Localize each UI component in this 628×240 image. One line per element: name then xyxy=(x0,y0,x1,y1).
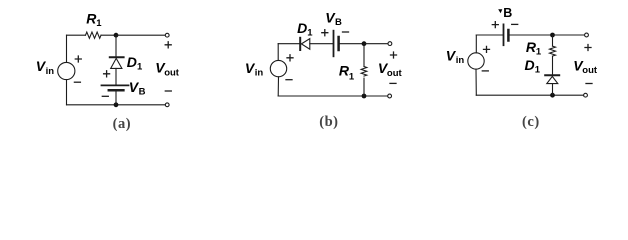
value label R1 (a) xyxy=(86,10,102,29)
wire: (a) node A down to diode xyxy=(115,35,117,56)
wire: (c) battery to node E xyxy=(510,34,553,36)
polarity +: (b) output xyxy=(391,52,397,58)
polarity +: (c) output xyxy=(585,45,591,51)
label D1 (b) xyxy=(297,20,313,39)
wire: (b) battery to node C xyxy=(340,43,364,45)
polarity -: (c) output xyxy=(586,83,592,85)
voltage source Vin (c) xyxy=(468,53,484,69)
label Vout (a) xyxy=(155,59,180,78)
wire: (a) left rail vertical xyxy=(66,35,68,105)
svg-text:1: 1 xyxy=(307,28,313,39)
polarity -: (b) battery VB xyxy=(343,31,349,33)
node E: (c) top junction dot xyxy=(550,33,555,38)
wire: (a) top rail left segment xyxy=(67,34,86,36)
label VB (b) xyxy=(325,10,342,28)
svg-text:B: B xyxy=(503,6,512,20)
polarity -: (a) output xyxy=(165,90,171,92)
svg-text:1: 1 xyxy=(349,71,355,82)
wire: (b) top rail left segment xyxy=(278,43,299,45)
voltage source Vin (b) xyxy=(270,60,286,76)
label Vout (c) xyxy=(573,57,598,76)
label Vin (b) xyxy=(245,60,264,79)
terminal: (a) output - (open circle) xyxy=(165,103,169,107)
label Vout (b) xyxy=(378,60,403,79)
battery VB (b) short plate xyxy=(337,37,340,50)
polarity +: (a) battery VB xyxy=(104,71,110,77)
polarity -: (b) source xyxy=(286,79,292,81)
wire: (b) node C down to resistor xyxy=(363,44,365,67)
wire: (b) diode to battery xyxy=(310,43,333,45)
label Vin (a) xyxy=(36,58,55,77)
label D1 (c) xyxy=(525,57,541,76)
caption (b) xyxy=(319,114,338,130)
label D1 (a) xyxy=(127,54,143,73)
caption (a) xyxy=(113,116,132,132)
caption (c) xyxy=(522,114,540,130)
label VB (c) B subscript xyxy=(503,6,512,20)
svg-text:(c): (c) xyxy=(522,114,540,130)
diode D1 (b) cathode bar xyxy=(299,38,301,50)
node B: (a) bottom junction dot xyxy=(114,102,119,107)
svg-text:D: D xyxy=(127,54,137,70)
svg-text:out: out xyxy=(164,67,180,78)
battery VB (c) long plate xyxy=(503,24,505,45)
svg-text:(b): (b) xyxy=(319,114,338,130)
wire: (c) left rail vertical xyxy=(475,35,477,95)
wire: (b) resistor to node D xyxy=(363,78,365,96)
wire: (c) diode to bottom rail xyxy=(552,84,554,96)
wire: (c) bottom rail xyxy=(476,94,583,96)
battery VB (b) long plate xyxy=(333,31,335,57)
resistor R1 (c) xyxy=(550,46,556,56)
svg-text:out: out xyxy=(387,68,403,79)
svg-text:D: D xyxy=(297,20,307,36)
diode D1 (a) cathode bar xyxy=(110,56,124,58)
polarity +: (a) source xyxy=(75,56,81,62)
node F: (c) bottom junction dot xyxy=(550,93,555,98)
polarity -: (b) output xyxy=(390,82,396,84)
node C: (b) top junction dot xyxy=(362,41,367,46)
svg-text:in: in xyxy=(46,66,55,77)
svg-text:1: 1 xyxy=(96,18,102,29)
terminal: (b) output - (open circle) xyxy=(388,94,392,98)
polarity +: (a) output xyxy=(165,42,171,48)
wire: (c) node E down to resistor xyxy=(552,35,554,46)
svg-text:B: B xyxy=(335,17,342,28)
polarity -: (a) battery VB xyxy=(102,95,108,97)
polarity -: (c) source xyxy=(482,70,488,72)
svg-text:in: in xyxy=(255,68,264,79)
battery VB (c) short plate xyxy=(507,30,510,41)
value label R1 (c) xyxy=(526,39,542,58)
label Vin (c) xyxy=(446,48,465,67)
voltage source Vin (a) xyxy=(58,62,75,79)
polarity +: (b) source xyxy=(287,55,293,61)
wire: (c) resistor to diode xyxy=(552,56,554,74)
label VB (c) clipped V wedge xyxy=(498,9,502,13)
value label R1 (b) xyxy=(339,63,355,83)
wire: (a) resistor to node A xyxy=(101,34,116,36)
wire: (b) left rail vertical xyxy=(277,44,279,96)
wire: (a) battery to bottom rail xyxy=(115,91,117,104)
diode D1 (a) triangle (pointing up) xyxy=(111,58,122,68)
svg-text:1: 1 xyxy=(535,64,541,75)
wire: (b) node C to output + terminal xyxy=(364,43,388,45)
terminal: (a) output + (open circle) xyxy=(165,33,169,37)
wire: (a) bottom rail xyxy=(67,104,166,106)
svg-text:1: 1 xyxy=(536,46,542,57)
wire: (b) bottom rail xyxy=(278,95,388,97)
diode D1 (c) cathode bar xyxy=(545,74,559,76)
svg-text:out: out xyxy=(582,65,598,76)
label VB (a) xyxy=(129,79,146,98)
polarity -: (c) battery VB xyxy=(512,23,518,25)
battery VB (a) short plate xyxy=(109,89,124,92)
wire: (c) top rail left segment xyxy=(476,34,502,36)
svg-text:D: D xyxy=(525,57,535,73)
polarity +: (c) battery VB xyxy=(492,22,498,28)
svg-text:in: in xyxy=(456,55,465,66)
polarity -: (a) source xyxy=(74,81,80,83)
terminal: (c) output - (open circle) xyxy=(584,93,588,97)
diode D1 (b) triangle (pointing left) xyxy=(301,39,309,50)
polarity +: (c) source xyxy=(484,46,490,52)
terminal: (c) output + (open circle) xyxy=(585,33,589,37)
wire: (a) diode to battery xyxy=(115,68,117,84)
resistor R1 (a) xyxy=(86,32,102,38)
polarity +: (b) battery VB xyxy=(322,30,328,36)
svg-text:1: 1 xyxy=(137,61,143,72)
wire: (c) node E to output + terminal xyxy=(553,34,585,36)
diode D1 (c) triangle (pointing up) xyxy=(547,76,558,83)
wire: (a) node A to output + terminal xyxy=(116,34,165,36)
node D: (b) bottom junction dot xyxy=(362,94,367,99)
terminal: (b) output + (open circle) xyxy=(388,42,392,46)
battery VB (a) long plate xyxy=(102,84,129,86)
resistor R1 (b) xyxy=(361,67,367,77)
node A: (a) top junction dot xyxy=(114,33,119,38)
svg-text:(a): (a) xyxy=(113,116,132,132)
svg-text:B: B xyxy=(139,87,146,98)
